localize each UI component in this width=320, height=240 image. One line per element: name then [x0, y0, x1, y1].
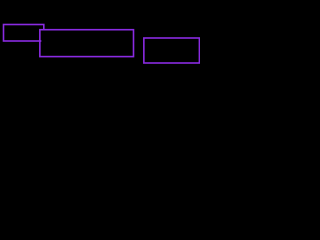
rectangle 1 (small, top-left, behind): [4, 25, 44, 42]
rectangle 2 interior mask (opaque black, covers rect1 overlap): [41, 31, 132, 56]
rectangle 3 (right): [144, 38, 200, 63]
rectangle 2 (large, center, on top): [40, 30, 134, 57]
